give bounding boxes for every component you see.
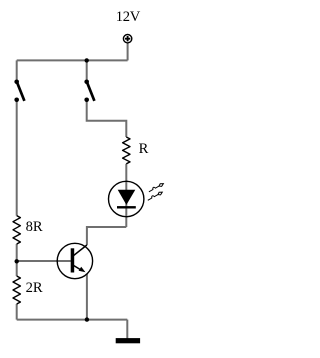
wire top rail — [17, 59, 128, 61]
wire 2R to bottom rail — [16, 304, 18, 320]
wire emitter to bottom rail — [86, 274, 88, 320]
resistor R — [123, 137, 130, 164]
svg-text:8R: 8R — [26, 219, 43, 235]
ground — [116, 338, 140, 343]
wire right switch drop — [86, 60, 88, 82]
switch S2 — [84, 80, 94, 103]
svg-text:12V: 12V — [116, 9, 141, 25]
LED light arrow lower — [147, 191, 163, 202]
node junction base — [15, 259, 19, 263]
transistor Q1 — [57, 243, 92, 278]
LED light arrow upper — [148, 182, 164, 193]
wire 8R to 2R through node — [16, 244, 18, 276]
wire LED through circle — [125, 182, 127, 228]
resistor 8R — [13, 216, 20, 244]
supply terminal 12V — [123, 35, 131, 43]
node junction top rail — [85, 58, 89, 62]
wire LED to collector jog — [87, 227, 126, 245]
switch S1 — [14, 80, 24, 103]
wire right switch to R jog — [87, 100, 127, 137]
wire left branch to 8R — [16, 100, 18, 216]
LED D1 — [109, 181, 144, 216]
wire bottom rail — [17, 319, 128, 321]
svg-text:R: R — [139, 141, 149, 157]
wire base — [17, 260, 71, 262]
svg-text:2R: 2R — [26, 280, 43, 296]
resistor 2R — [13, 276, 20, 304]
wire left branch upper — [16, 60, 18, 82]
wire R to LED — [125, 164, 127, 182]
node junction bottom rail — [85, 317, 89, 321]
wire ground drop — [126, 320, 128, 339]
wire supply drop — [127, 43, 129, 60]
